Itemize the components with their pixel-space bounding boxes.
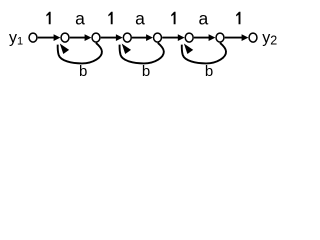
- branch gain label 1: [171, 12, 175, 24]
- svg-text:b: b: [142, 63, 150, 80]
- node 5: [154, 33, 162, 42]
- node 1: [29, 33, 37, 42]
- svg-text:b: b: [205, 63, 213, 80]
- wire branch 4 (gain a): [132, 37, 148, 39]
- feedback branch b1 (arc from node 3 back to node 2): [58, 43, 102, 64]
- branch gain label 1: [236, 12, 240, 24]
- node 6: [185, 33, 193, 42]
- wire branch 2 (gain a): [70, 37, 87, 39]
- svg-text:a: a: [75, 9, 85, 29]
- svg-text:a: a: [199, 9, 209, 29]
- wire branch 5 (gain 1): [162, 37, 179, 39]
- branch gain label 1: [46, 12, 50, 24]
- branch gain label 1: [108, 12, 112, 24]
- svg-text:a: a: [135, 9, 145, 29]
- node 4: [123, 33, 131, 42]
- wire branch 6 (gain a): [194, 37, 211, 39]
- svg-text:b: b: [79, 63, 87, 80]
- node 8: [249, 33, 257, 42]
- node 2: [61, 33, 69, 42]
- wire branch 7 (gain 1): [225, 37, 244, 39]
- feedback branch b2 (arc from node 5 back to node 4): [120, 43, 164, 64]
- node 3: [92, 33, 100, 42]
- wire branch 3 (gain 1): [101, 37, 118, 39]
- wire branch 1 (gain 1): [38, 37, 56, 39]
- svg-text:y1: y1: [9, 30, 23, 48]
- node 7: [216, 33, 224, 42]
- feedback branch b3 (arc from node 7 back to node 6): [182, 43, 226, 64]
- svg-text:y2: y2: [262, 30, 277, 48]
